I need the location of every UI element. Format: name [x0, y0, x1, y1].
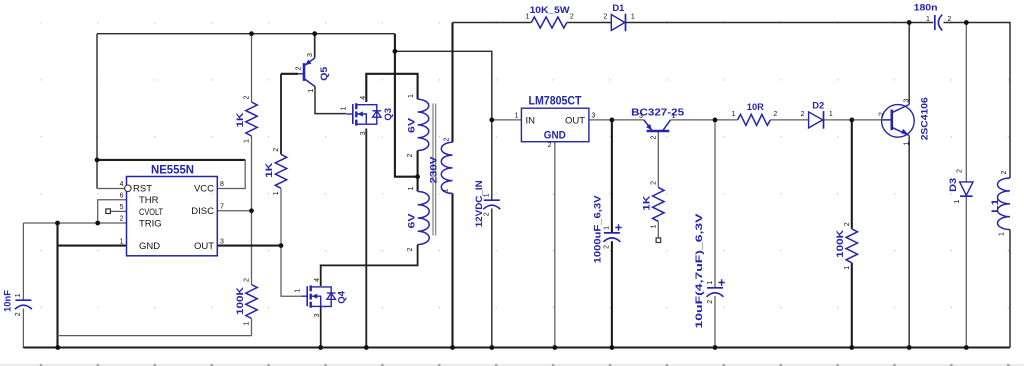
svg-text:NE555N: NE555N — [151, 165, 194, 177]
wire Q5 base horizontal — [281, 73, 298, 75]
wire 100K column thick — [851, 120, 853, 229]
svg-text:10K_5W: 10K_5W — [530, 5, 570, 16]
wire 2SC collector up — [908, 23, 910, 105]
wire 10nF to ground bus — [23, 309, 57, 348]
resistor 1K (BC327 base) — [641, 181, 664, 229]
svg-text:4: 4 — [120, 181, 124, 188]
junction bus / D3 anode — [964, 345, 969, 350]
junction bus / regulator GND — [552, 345, 557, 350]
svg-text:2: 2 — [957, 169, 964, 173]
svg-text:2: 2 — [801, 111, 805, 118]
junction bus / 230V — [450, 345, 455, 350]
transistor Q3 MOSFET — [340, 96, 394, 136]
svg-text:1: 1 — [525, 14, 529, 21]
svg-text:1: 1 — [340, 107, 347, 111]
wire BC327 base drop — [657, 132, 659, 188]
svg-text:THR: THR — [139, 195, 159, 206]
transformer primary 6V bottom — [407, 187, 430, 252]
junction bus / Q3 source — [364, 345, 369, 350]
resistor 1K (VCC to DISC) — [235, 96, 257, 144]
svg-text:230V: 230V — [429, 156, 440, 184]
svg-text:OUT: OUT — [565, 115, 585, 126]
wire D3 to ground — [965, 197, 967, 348]
resistor 1K (Q5 base) — [264, 148, 287, 196]
svg-text:D1: D1 — [612, 3, 625, 14]
wire 10R to D2 — [770, 119, 808, 121]
svg-text:1: 1 — [631, 14, 635, 21]
svg-text:IN: IN — [526, 115, 536, 126]
svg-text:10uF(4,7uF)_6,3V: 10uF(4,7uF)_6,3V — [694, 213, 705, 329]
svg-text:1: 1 — [442, 189, 449, 193]
wire HV top bus segment 1 — [453, 22, 532, 24]
svg-text:1: 1 — [904, 142, 911, 146]
svg-text:2: 2 — [484, 212, 491, 216]
junction 2SC base / 100K — [849, 118, 854, 123]
wire Q3 drain to 6V winding — [366, 74, 417, 102]
svg-text:GND: GND — [544, 129, 566, 141]
svg-text:L1: L1 — [990, 198, 1001, 213]
wire 1000uF column — [611, 120, 613, 233]
wire 1000uF to ground — [611, 241, 613, 347]
svg-text:10R: 10R — [747, 102, 764, 113]
junction bus / 100K — [849, 345, 854, 350]
svg-text:1000uF_6,3V: 1000uF_6,3V — [593, 195, 604, 264]
resistor 100K (2SC base) — [835, 222, 857, 269]
resistor 100K (DISC to GND) — [235, 278, 257, 326]
svg-text:8: 8 — [220, 181, 224, 188]
wire 10uF to ground — [714, 296, 716, 347]
svg-text:1K: 1K — [264, 163, 275, 178]
svg-text:1: 1 — [295, 289, 302, 293]
svg-text:1: 1 — [732, 111, 736, 118]
wire 12V rail to regulator — [395, 51, 492, 120]
svg-text:1K: 1K — [235, 112, 246, 127]
svg-text:2: 2 — [244, 96, 251, 100]
svg-text:10nF: 10nF — [2, 290, 13, 312]
svg-text:3: 3 — [592, 113, 596, 120]
svg-text:2: 2 — [443, 138, 450, 142]
wire DISC net vertical — [251, 136, 253, 285]
wire regulator OUT to BC327 — [589, 119, 644, 121]
svg-text:2: 2 — [296, 67, 303, 71]
transistor BC327-25 PNP — [631, 106, 684, 139]
svg-text:3: 3 — [220, 238, 224, 245]
svg-text:7: 7 — [220, 204, 224, 211]
svg-text:1: 1 — [604, 226, 611, 230]
svg-text:2: 2 — [548, 142, 552, 149]
wire BC327 collector run — [671, 119, 738, 121]
transistor 2SC4106 NPN — [879, 97, 931, 145]
junction OUT node — [279, 243, 284, 248]
svg-text:1: 1 — [844, 266, 851, 270]
svg-text:6V: 6V — [407, 213, 418, 229]
svg-text:2: 2 — [773, 111, 777, 118]
svg-text:1: 1 — [650, 224, 657, 228]
junction DISC — [249, 208, 254, 213]
svg-text:1: 1 — [829, 111, 833, 118]
diode D3 — [948, 169, 973, 204]
junction OUT / 1000uF — [610, 118, 615, 123]
junction bus / Q4 source — [318, 345, 323, 350]
wire 100K to ground — [851, 263, 853, 348]
svg-text:3: 3 — [904, 99, 911, 103]
svg-text:2: 2 — [651, 136, 658, 140]
wire ground bus bottom — [23, 346, 1010, 348]
resistor 10K_5W — [525, 5, 574, 28]
svg-text:2: 2 — [707, 300, 714, 304]
svg-text:2: 2 — [15, 312, 22, 316]
transistor Q4 MOSFET — [295, 278, 348, 318]
diode D1 — [603, 3, 635, 31]
regulator U2 LM7805CT — [515, 96, 596, 150]
svg-text:1: 1 — [954, 200, 961, 204]
svg-text:1K: 1K — [641, 196, 652, 211]
svg-text:1: 1 — [926, 16, 930, 23]
svg-text:2: 2 — [407, 248, 414, 252]
svg-text:Q3: Q3 — [383, 108, 394, 121]
wire 12VDC cap column — [491, 120, 493, 200]
wire GND pin thick — [58, 245, 127, 247]
wire RST pin — [97, 188, 127, 190]
svg-text:1: 1 — [15, 293, 22, 297]
wire regulator GND drop — [554, 142, 556, 348]
junction regulator IN — [489, 118, 494, 123]
wire 1K feed riser — [251, 34, 253, 102]
transformer primary 6V top — [407, 94, 429, 158]
svg-text:VCC: VCC — [194, 184, 214, 195]
svg-text:OUT: OUT — [194, 241, 214, 252]
svg-text:1: 1 — [707, 281, 714, 285]
svg-text:3: 3 — [360, 131, 367, 135]
wire Q5 emitter to Q3 gate — [315, 87, 347, 114]
wire OUT pin thick — [217, 245, 281, 247]
wire CVOLT stub — [111, 210, 127, 212]
wire 10uF column — [714, 120, 716, 288]
svg-text:2SC4106: 2SC4106 — [920, 97, 931, 140]
wire 2SC emitter down — [908, 136, 910, 348]
wire TRIG down to 10nF — [22, 223, 24, 300]
svg-text:2: 2 — [844, 222, 851, 226]
junction VCC rail / Q5 collector — [312, 31, 317, 36]
svg-text:5: 5 — [120, 204, 124, 211]
wire OUT node to Q4 gate — [281, 246, 301, 297]
capacitor 12VDC_IN — [474, 180, 501, 227]
svg-text:1: 1 — [999, 232, 1006, 236]
junction bus / 10uF — [713, 345, 718, 350]
svg-text:D2: D2 — [812, 101, 824, 112]
wire Q3 source to ground — [365, 129, 367, 348]
wire 12VDC cap to ground — [491, 209, 493, 348]
svg-text:4: 4 — [360, 96, 367, 100]
svg-text:1: 1 — [484, 193, 491, 197]
svg-text:GND: GND — [139, 241, 160, 252]
op IC U1 NE555N — [120, 165, 224, 256]
svg-text:2: 2 — [879, 112, 886, 116]
wire D3 column top — [965, 23, 967, 182]
svg-text:1: 1 — [120, 238, 124, 245]
svg-text:1: 1 — [408, 187, 415, 191]
svg-text:RST: RST — [133, 184, 152, 195]
wire 230V bottom to ground — [451, 193, 453, 347]
svg-text:1: 1 — [515, 113, 519, 120]
junction bus / GND vertical — [55, 345, 60, 350]
svg-text:2: 2 — [570, 14, 574, 21]
junction 12V rail — [393, 49, 398, 54]
wire 1K stub to marker — [657, 222, 659, 239]
svg-text:1: 1 — [308, 89, 315, 93]
wire D2 to 2SC base — [823, 119, 890, 121]
junction 10uF tap — [713, 118, 718, 123]
junction top bus / D3 — [964, 20, 969, 25]
wire centre-tap feed — [395, 34, 418, 177]
svg-text:D3: D3 — [948, 178, 959, 192]
junction TRIG / THR — [95, 221, 100, 226]
svg-text:CVOLT: CVOLT — [139, 207, 163, 218]
svg-text:2: 2 — [244, 278, 251, 282]
svg-text:2: 2 — [120, 216, 124, 223]
wire THR pin and riser — [98, 200, 127, 223]
diode D2 — [801, 101, 833, 129]
junction top bus / 2SC collector — [907, 20, 912, 25]
svg-text:3: 3 — [639, 113, 643, 120]
svg-text:2: 2 — [603, 14, 607, 21]
wire L1 bottom to ground — [1009, 230, 1011, 348]
junction centre tap — [415, 174, 420, 179]
svg-text:1: 1 — [672, 113, 676, 120]
svg-text:1: 1 — [273, 191, 280, 195]
svg-text:6V: 6V — [407, 117, 418, 133]
wire left vertical to RST — [96, 34, 98, 189]
svg-text:2: 2 — [407, 154, 414, 158]
wire VCC top rail — [97, 33, 395, 35]
svg-text:3: 3 — [307, 53, 314, 57]
wire 6V-2 to Q4 drain — [321, 245, 418, 287]
wire Q5 base riser — [280, 74, 282, 155]
junction bus / 12VDC cap — [489, 345, 494, 350]
capacitor 1000uF_6,3V — [593, 195, 622, 264]
svg-text:2: 2 — [273, 148, 280, 152]
wire RST-VCC thick bar — [97, 159, 245, 161]
transistor Q5 PNP — [296, 53, 331, 93]
wire HV top bus segment 3 — [626, 22, 934, 24]
capacitor 10nF — [2, 290, 32, 316]
wire regulator IN — [492, 119, 522, 121]
wire 230V top — [451, 23, 453, 143]
wire VCC pin riser — [217, 160, 245, 189]
wire Q5 collector up — [314, 34, 316, 58]
transformer secondary 230V — [429, 138, 453, 194]
wire HV top bus segment 2 — [567, 22, 612, 24]
svg-text:100K: 100K — [235, 287, 246, 315]
svg-text:1: 1 — [408, 94, 415, 98]
junction VCC rail / 1K — [249, 31, 254, 36]
inductor L1 — [990, 171, 1010, 237]
junction bus / 1000uF — [610, 345, 615, 350]
no-connect marker CVOLT — [106, 209, 111, 214]
wire GND vertical thick — [56, 223, 58, 348]
svg-text:LM7805CT: LM7805CT — [529, 96, 582, 108]
svg-text:180n: 180n — [914, 3, 938, 14]
svg-text:TRIG: TRIG — [139, 218, 162, 229]
wire DISC pin — [217, 210, 251, 212]
svg-text:2: 2 — [604, 245, 611, 249]
wire Q4 source to ground — [320, 307, 322, 348]
svg-text:Q4: Q4 — [337, 290, 348, 303]
svg-text:2: 2 — [650, 181, 657, 185]
wire 1K to OUT node — [280, 189, 282, 246]
wire winding series link — [417, 151, 419, 192]
capacitor 180n — [914, 3, 952, 31]
wire 100K bottom link — [58, 319, 252, 336]
svg-text:12VDC_IN: 12VDC_IN — [474, 180, 485, 227]
svg-text:2: 2 — [1001, 171, 1008, 175]
svg-text:DISC: DISC — [191, 206, 214, 217]
svg-text:3: 3 — [314, 313, 321, 317]
svg-text:6: 6 — [120, 193, 124, 200]
svg-text:Q5: Q5 — [319, 66, 330, 81]
transformer core — [433, 104, 436, 236]
junction TRIG / GND vertical — [55, 221, 60, 226]
svg-text:1: 1 — [244, 139, 251, 143]
svg-text:2: 2 — [948, 16, 952, 23]
wire HV bus after cap — [944, 23, 1011, 179]
svg-text:100K: 100K — [835, 230, 846, 258]
no-connect marker BC327 bias — [656, 238, 661, 243]
junction left bar / RST riser — [95, 158, 100, 163]
svg-text:4: 4 — [314, 278, 321, 282]
svg-text:1: 1 — [244, 322, 251, 326]
wire TRIG run — [23, 222, 126, 224]
resistor 10R — [732, 102, 778, 125]
junction bus / 2SC emitter — [907, 345, 912, 350]
capacitor 10uF(4,7uF)_6,3V — [694, 213, 725, 329]
